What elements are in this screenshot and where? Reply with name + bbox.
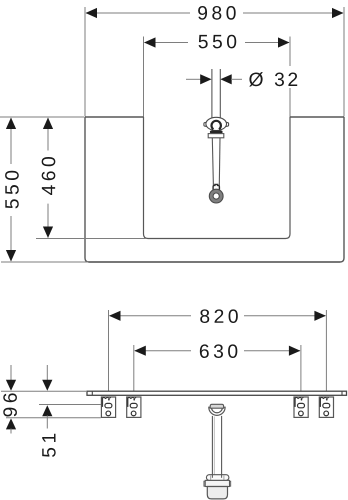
drain hole donut — [211, 191, 221, 201]
wire: extension line y=417.4 (bracket bottom) — [6, 417, 101, 419]
arrow 51 top (down) — [42, 380, 52, 391]
dimension 820 line — [110, 315, 192, 317]
console top edge right segment — [290, 116, 344, 118]
arrow 630 left — [134, 346, 146, 356]
pipe stub above fitting — [211, 69, 213, 120]
label &#216;32 — [249, 72, 297, 86]
dimension 630 line — [135, 350, 191, 352]
wire: horizontal extension at basin bottom y=238.5 — [36, 238, 146, 240]
arrow 630 right — [289, 346, 301, 356]
arrow 96 top (down) — [6, 380, 16, 391]
tailpipe to drain — [212, 138, 213, 186]
dimension 96 arrows — [10, 365, 12, 381]
bracket 3 — [294, 397, 308, 417]
arrow 820 left — [109, 311, 121, 321]
arrow 550v top — [6, 118, 16, 130]
wire: extension line right of 550 dim, x=290 — [289, 37, 291, 67]
arrow Ø32 left — [200, 74, 211, 84]
bracket 4 — [319, 397, 333, 417]
bracket 2 — [127, 397, 141, 417]
wire: extension line y=406.7 (bracket slot center) — [39, 404, 101, 406]
wire: horizontal extension at console bottom y=262 — [1, 261, 88, 263]
faucet dark band — [210, 131, 223, 134]
console slab front view — [87, 391, 347, 395]
wire: extension line 820 right, x=326.4 — [325, 310, 327, 391]
wire: extension line 630 right, x=300.9 — [300, 345, 302, 391]
wire: extension line 820 left, x=108.5 — [108, 310, 110, 391]
arrow 550 left — [144, 37, 156, 47]
trap top flange — [206, 475, 229, 481]
faucet inner dark horseshoe — [211, 121, 220, 129]
drain cap under slab — [210, 404, 223, 408]
arrow 980 right — [332, 8, 344, 18]
arrow 980 left — [86, 8, 98, 18]
arrow 96 bottom (up) — [6, 418, 16, 429]
wire: extension line right of 980 dim, x=344 — [343, 7, 345, 117]
dimension 460 vertical line — [47, 118, 49, 151]
arrow Ø32 right — [220, 74, 231, 84]
label 96 — [3, 393, 17, 416]
arrow 460 bottom — [43, 227, 53, 239]
dimension 51 arrows — [46, 365, 48, 381]
label 460 vertical — [42, 157, 56, 195]
wire: extension line 630 left, x=133.8 — [133, 345, 135, 391]
dimension 550 vertical line — [10, 118, 12, 164]
arrow 460 top — [43, 118, 53, 130]
label 550 — [199, 35, 237, 49]
basin cutout left edge — [144, 117, 149, 239]
slab left end divider — [91, 391, 93, 395]
trap nut with tabs — [204, 481, 207, 486]
slab right end divider — [341, 391, 343, 395]
console left edge — [85, 117, 89, 262]
label 51 — [42, 434, 55, 457]
bracket 1 — [101, 397, 115, 417]
arrow 550v bottom — [6, 250, 16, 262]
dimension 980 line — [86, 12, 190, 14]
wire: extension line left of 980 dim, x=85 — [84, 7, 86, 117]
arrow 51 bottom (up) — [42, 405, 52, 416]
wire: extension line left of 550 dim, x=143.5 — [143, 37, 145, 118]
drain U clamp — [209, 407, 225, 415]
label 630 — [200, 344, 237, 358]
label 980 — [198, 6, 236, 20]
console right edge — [340, 117, 344, 262]
console bottom edge — [89, 261, 340, 263]
faucet fitting eye shape — [204, 122, 207, 126]
dimension 550 line — [145, 42, 189, 44]
trap tailpipe — [211, 416, 213, 475]
arrow 820 right — [314, 311, 326, 321]
label 820 — [200, 309, 238, 323]
faucet collar — [208, 134, 224, 138]
label 550 vertical — [5, 171, 19, 209]
dimension Ø32 left leader — [186, 78, 201, 80]
drain tab — [213, 184, 219, 189]
trap cup — [207, 487, 227, 499]
console top edge left segment — [85, 116, 144, 118]
arrow 550 right — [278, 37, 290, 47]
dimension Ø32 right leader — [231, 78, 242, 80]
basin cutout right edge — [286, 117, 291, 239]
wire: horizontal extension top-left at y=117 — [0, 116, 84, 118]
basin cutout bottom edge — [148, 238, 286, 240]
wire: extension line y=391.3 from left to slab — [1, 390, 86, 392]
